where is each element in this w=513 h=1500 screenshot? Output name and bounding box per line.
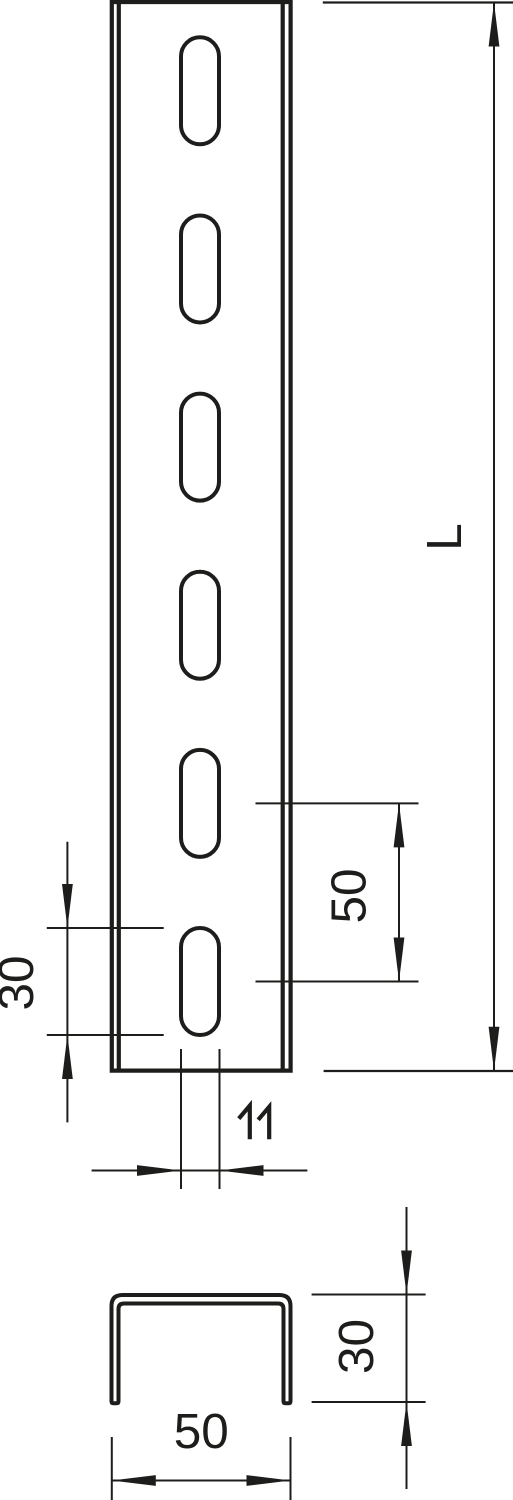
dimension 50 (slot pitch) line <box>398 803 400 981</box>
dimension 30 (slot length) upper extension line <box>47 927 164 929</box>
dimension 50 (slot pitch) down arrowhead <box>394 938 405 982</box>
slot hole 5 <box>181 750 219 857</box>
dimension 11 (slot width) right extension line <box>219 1049 221 1189</box>
dimension 50 (profile width) line <box>112 1480 291 1482</box>
slot hole 1 <box>181 37 219 144</box>
dimension 30 (slot length) down arrowhead <box>62 884 73 928</box>
svg-text:50: 50 <box>322 868 377 923</box>
dimension 11 (slot width) left extension line <box>180 1049 182 1189</box>
svg-text:50: 50 <box>174 1404 229 1459</box>
dimension 11 (slot width) line <box>92 1170 308 1172</box>
label 11 (slot width) <box>239 1106 269 1140</box>
dimension 50 (profile width) left extension line <box>111 1437 113 1500</box>
dimension 50 (slot pitch) upper extension line <box>256 802 419 804</box>
dimension 50 (profile width) right arrowhead <box>247 1475 291 1486</box>
slot hole 2 <box>181 215 219 322</box>
dimension 50 (profile width) right extension line <box>290 1437 292 1500</box>
slot hole 6 <box>181 928 219 1035</box>
dimension 50 (slot pitch) up arrowhead <box>394 803 405 847</box>
dimension 30 (profile height) line <box>406 1207 408 1489</box>
svg-text:L: L <box>417 523 472 551</box>
dimension L bottom extension line <box>324 1070 513 1072</box>
svg-text:30: 30 <box>329 1319 384 1374</box>
dimension 50 (slot pitch) lower extension line <box>256 981 419 983</box>
dimension L top arrowhead <box>489 3 500 47</box>
rail front view outline <box>112 2 291 1071</box>
rail left fold edge line <box>117 4 121 1069</box>
dimension 50 (profile width) left arrowhead <box>112 1475 156 1486</box>
dimension 30 (slot length) up arrowhead <box>62 1035 73 1079</box>
dimension 30 (slot length) lower extension line <box>47 1034 164 1036</box>
dimension L top extension line <box>323 1 513 3</box>
dimension 30 (profile height) up arrowhead <box>401 1402 412 1446</box>
slot hole 3 <box>181 394 219 501</box>
dimension 30 (profile height) lower extension line <box>312 1401 426 1403</box>
dimension L bottom arrowhead <box>489 1027 500 1071</box>
dimension 11 (slot width) left-pointing arrowhead <box>220 1165 264 1176</box>
rail right fold edge line <box>281 4 285 1069</box>
dimension 30 (slot length) line <box>66 842 68 1123</box>
dimension 11 (slot width) right-pointing arrowhead <box>137 1165 181 1176</box>
svg-text:30: 30 <box>0 955 44 1010</box>
U-profile cross-section outline <box>112 1295 291 1403</box>
dimension L line <box>493 3 495 1071</box>
dimension 30 (profile height) down arrowhead <box>401 1251 412 1295</box>
slot hole 4 <box>181 572 219 679</box>
dimension 30 (profile height) upper extension line <box>312 1294 426 1296</box>
